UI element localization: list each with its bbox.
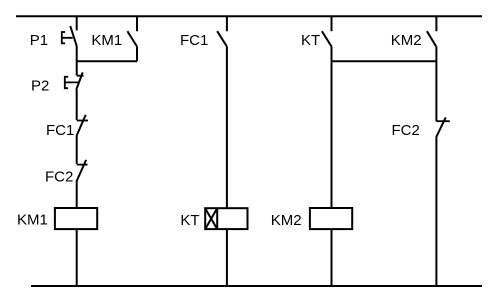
svg-text:P1: P1	[30, 32, 48, 49]
wire junction link branch3 to branch4	[332, 60, 437, 62]
wire FC1 contact to coil KT	[226, 47, 228, 209]
svg-text:KT: KT	[180, 212, 199, 229]
coil KM1	[55, 208, 97, 229]
coil KM2	[310, 208, 352, 229]
svg-text:KT: KT	[301, 32, 320, 49]
wire FC1 to FC2	[76, 136, 78, 164]
svg-text:FC1: FC1	[180, 32, 208, 49]
coil KT delay box divider	[216, 208, 218, 229]
contact FC2 NC crossbar	[436, 120, 449, 122]
contact FC1 NC crossbar	[77, 120, 88, 122]
wire FC2 to coil KM1	[76, 182, 78, 209]
svg-text:P2: P2	[31, 78, 49, 95]
pushbutton P2 actuator bracket	[65, 77, 79, 88]
wire coil KM1 to bottom rail	[76, 229, 78, 286]
wire KM1 holding branch top	[136, 16, 138, 31]
svg-text:KM2: KM2	[391, 32, 422, 49]
svg-text:KM2: KM2	[271, 212, 302, 229]
contact FC2 (NC) blade	[436, 117, 446, 137]
contact FC1 (NO) blade	[217, 31, 227, 46]
coil KT delay box X	[205, 208, 217, 229]
pushbutton P1 (NO start button) contact blade	[70, 26, 76, 46]
wire FC2 to bottom rail	[435, 137, 437, 286]
contact FC2 (NC thermal) blade	[77, 160, 87, 182]
contact FC2 NC crossbar	[77, 164, 88, 166]
svg-text:FC2: FC2	[45, 168, 73, 185]
wire KM2 contact to FC2	[435, 47, 437, 121]
wire P1 to P2	[76, 46, 78, 75]
contact FC1 (NC thermal) blade	[77, 115, 86, 136]
contact KT (NO timed) blade	[322, 31, 332, 46]
svg-text:FC2: FC2	[392, 122, 420, 139]
wire branch1 top (rail to P1)	[76, 16, 78, 30]
pushbutton P2 (NC stop button) contact blade	[76, 72, 83, 89]
svg-text:KM1: KM1	[91, 32, 122, 49]
wire junction link KM1 branch to main branch	[77, 60, 137, 62]
pushbutton P1 actuator bracket	[62, 32, 73, 43]
top supply rail	[16, 15, 482, 17]
wire KT contact to coil KM2	[331, 47, 333, 209]
contact KM1 (NO holding) blade	[127, 31, 137, 46]
wire branch3 top (rail to KT contact)	[331, 16, 333, 31]
coil KT (time relay)	[205, 208, 247, 229]
svg-text:FC1: FC1	[46, 122, 74, 139]
svg-text:KM1: KM1	[17, 212, 48, 229]
contact KM2 (NO holding) blade	[427, 31, 437, 47]
wire KM1 holding branch bottom	[136, 47, 138, 62]
wire coil KT to bottom rail	[226, 229, 228, 286]
wire coil KM2 to bottom rail	[331, 229, 333, 286]
wire branch4 top (rail to KM2 contact)	[435, 16, 437, 31]
wire P2 to FC1	[76, 90, 78, 120]
wire branch2 top (rail to FC1 contact)	[226, 16, 228, 31]
contact P2 NC crossbar	[77, 75, 84, 77]
bottom supply rail	[31, 285, 482, 287]
